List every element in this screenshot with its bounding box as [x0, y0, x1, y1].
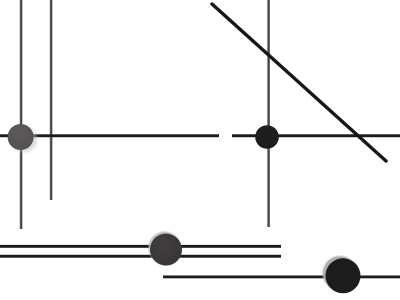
rod V3	[267, 0, 270, 227]
disc 1 shadow	[12, 127, 37, 152]
disc 1	[8, 124, 34, 150]
bar H3	[163, 276, 400, 279]
bar D1	[0, 245, 281, 248]
disc 3 rim light	[149, 232, 181, 264]
disc 4	[326, 258, 361, 293]
bar D2	[0, 255, 281, 258]
disc 2	[255, 125, 279, 149]
bar H2	[232, 134, 400, 137]
disc 4 rim light	[323, 256, 358, 291]
diagonal bar	[212, 4, 386, 161]
disc 3	[150, 234, 182, 266]
rod V1	[20, 0, 23, 229]
bar H1	[0, 134, 219, 137]
rod V2	[50, 0, 53, 200]
